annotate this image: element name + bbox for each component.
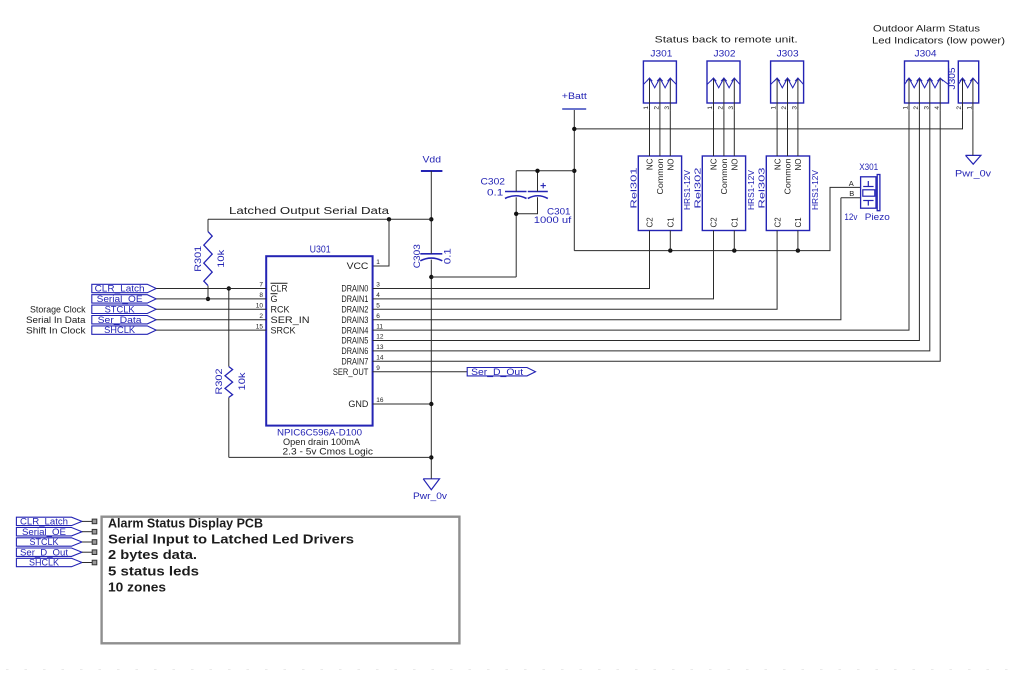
wire DRAIN3 bbox=[373, 198, 841, 320]
svg-text:Vdd: Vdd bbox=[423, 155, 442, 165]
svg-text:SHCLK: SHCLK bbox=[29, 558, 59, 568]
svg-text:3: 3 bbox=[792, 106, 799, 110]
ground Pwr_0v (below U301) bbox=[423, 479, 439, 490]
svg-text:Common: Common bbox=[784, 159, 793, 195]
svg-text:Ser_D_Out: Ser_D_Out bbox=[471, 367, 524, 377]
svg-text:7: 7 bbox=[259, 282, 263, 289]
svg-text:C1: C1 bbox=[731, 217, 740, 228]
svg-text:2: 2 bbox=[913, 106, 920, 110]
svg-text:Open drain 100mA: Open drain 100mA bbox=[283, 437, 360, 447]
svg-text:NC: NC bbox=[773, 158, 782, 170]
svg-text:C1: C1 bbox=[794, 217, 803, 228]
junction dot ground jog bbox=[429, 275, 433, 279]
svg-text:1: 1 bbox=[707, 106, 714, 110]
svg-text:HRS1-12V: HRS1-12V bbox=[682, 170, 692, 210]
svg-text:Rel301: Rel301 bbox=[628, 167, 638, 208]
junction dot C301 top bbox=[535, 169, 539, 173]
wire C303 bottom to ground rail bbox=[430, 260, 432, 479]
svg-text:C303: C303 bbox=[412, 244, 422, 268]
svg-text:5: 5 bbox=[376, 303, 380, 310]
svg-text:Serial In Data: Serial In Data bbox=[26, 315, 86, 325]
junction dot bottom rail bbox=[429, 455, 433, 459]
net flag Serial_OE (sheet port) bbox=[16, 528, 82, 536]
wire cap top rail bbox=[516, 170, 574, 172]
svg-text:2: 2 bbox=[718, 106, 725, 110]
wire ground jog to C302 bbox=[431, 276, 516, 278]
svg-text:DRAIN3: DRAIN3 bbox=[341, 315, 368, 325]
svg-text:J302: J302 bbox=[714, 49, 736, 60]
net flag STCLK bbox=[92, 305, 156, 313]
svg-text:RCK: RCK bbox=[271, 305, 290, 315]
svg-text:2 bytes data.: 2 bytes data. bbox=[108, 547, 197, 562]
svg-text:DRAIN1: DRAIN1 bbox=[341, 294, 368, 304]
svg-text:NO: NO bbox=[794, 159, 803, 171]
relay Rel301 bbox=[638, 156, 681, 231]
note box bbox=[102, 517, 460, 644]
svg-text:1: 1 bbox=[967, 106, 974, 110]
svg-text:J304: J304 bbox=[915, 49, 937, 60]
wire STCLK port bbox=[82, 541, 92, 543]
wire VCC drop to pin1 bbox=[373, 219, 389, 266]
connector J304 bbox=[905, 61, 949, 103]
wire SHCLK to U301 bbox=[156, 329, 266, 331]
wire DRAIN7 bbox=[373, 111, 941, 361]
wire Serial_OE to U301 bbox=[156, 298, 266, 300]
svg-text:C2: C2 bbox=[646, 217, 655, 228]
svg-text:DRAIN2: DRAIN2 bbox=[341, 305, 368, 315]
svg-text:1000 uf: 1000 uf bbox=[534, 215, 572, 225]
pad Ser_D_Out port bbox=[92, 550, 97, 555]
svg-text:Rel303: Rel303 bbox=[756, 167, 766, 208]
connector J301 bbox=[643, 61, 676, 103]
wire VCC top rail bbox=[208, 218, 431, 220]
svg-text:10: 10 bbox=[256, 303, 264, 310]
svg-text:GND: GND bbox=[348, 399, 369, 409]
svg-text:CLR_Latch: CLR_Latch bbox=[95, 284, 145, 294]
wire Rel301 C1 stub bbox=[669, 231, 671, 251]
svg-text:14: 14 bbox=[376, 355, 384, 362]
svg-text:2: 2 bbox=[259, 313, 263, 320]
wire C1 rail (relay coil common) bbox=[574, 187, 860, 250]
svg-text:NO: NO bbox=[667, 159, 676, 171]
svg-text:Led Indicators (low power): Led Indicators (low power) bbox=[872, 36, 1005, 47]
svg-text:6: 6 bbox=[376, 313, 380, 320]
svg-text:16: 16 bbox=[376, 397, 384, 404]
svg-text:C2: C2 bbox=[710, 217, 719, 228]
faint bottom dashes bbox=[6, 669, 1018, 671]
wire +Batt vertical (bar to C1 rail corner) bbox=[573, 110, 575, 251]
svg-text:SER_IN: SER_IN bbox=[271, 315, 310, 325]
svg-text:10k: 10k bbox=[216, 249, 226, 268]
svg-text:10k: 10k bbox=[237, 372, 247, 391]
svg-text:15: 15 bbox=[256, 323, 264, 330]
svg-text:8: 8 bbox=[259, 292, 263, 299]
net flag SHCLK bbox=[92, 326, 156, 334]
svg-text:2: 2 bbox=[956, 106, 963, 110]
net flag Ser_D_Out (sheet port) bbox=[16, 548, 82, 556]
net flag Serial_OE bbox=[92, 295, 156, 303]
wire Ser_Data to U301 bbox=[156, 319, 266, 321]
wire DRAIN0 bbox=[373, 231, 650, 289]
svg-text:X301: X301 bbox=[859, 162, 878, 173]
wire Serial_OE port bbox=[82, 531, 92, 533]
junction dot rail/batt bbox=[572, 127, 576, 131]
wire CLR_Latch to U301 bbox=[156, 288, 266, 290]
svg-text:Common: Common bbox=[720, 159, 729, 195]
svg-text:3: 3 bbox=[376, 282, 380, 289]
svg-text:Serial_OE: Serial_OE bbox=[97, 294, 143, 304]
svg-text:C302: C302 bbox=[481, 177, 506, 187]
svg-text:Status back to remote unit.: Status back to remote unit. bbox=[655, 35, 798, 46]
resistor R302 bbox=[228, 289, 230, 367]
svg-text:5 status leds: 5 status leds bbox=[108, 563, 199, 578]
resistor R301 bbox=[207, 219, 209, 231]
svg-text:12v: 12v bbox=[844, 212, 857, 222]
pad Serial_OE port bbox=[92, 529, 97, 534]
junction dot Rel301 C1 bbox=[668, 248, 672, 252]
svg-text:1: 1 bbox=[376, 259, 380, 266]
net flag Ser_Data bbox=[92, 316, 156, 324]
wire Ser_D_Out port bbox=[82, 551, 92, 553]
junction dot Rel303 C1 bbox=[796, 248, 800, 252]
svg-text:Serial Input to Latched Led Dr: Serial Input to Latched Led Drivers bbox=[108, 531, 354, 546]
wire Vdd to C303 bbox=[430, 171, 432, 254]
svg-text:SHCLK: SHCLK bbox=[104, 325, 135, 335]
relay Rel302 bbox=[702, 156, 745, 231]
junction dot Rel302 C1 bbox=[732, 248, 736, 252]
svg-text:A: A bbox=[849, 179, 854, 188]
svg-text:Rel302: Rel302 bbox=[692, 167, 702, 208]
svg-text:13: 13 bbox=[376, 344, 384, 351]
svg-text:J301: J301 bbox=[650, 49, 672, 60]
svg-text:Pwr_0v: Pwr_0v bbox=[955, 169, 992, 179]
svg-text:+Batt: +Batt bbox=[562, 91, 588, 101]
relay Rel303 bbox=[766, 156, 809, 231]
svg-text:NO: NO bbox=[731, 159, 740, 171]
wire CLR_Latch port bbox=[82, 520, 92, 522]
junction dot C301/C302 bottom bbox=[514, 212, 518, 216]
svg-text:0.1: 0.1 bbox=[443, 248, 453, 264]
wire DRAIN2 bbox=[373, 231, 777, 310]
svg-text:11: 11 bbox=[376, 323, 383, 330]
svg-text:C1: C1 bbox=[667, 217, 676, 228]
svg-text:CLR: CLR bbox=[271, 284, 288, 294]
net flag STCLK (sheet port) bbox=[16, 538, 82, 546]
wire SER_OUT bbox=[373, 371, 468, 373]
svg-text:J305: J305 bbox=[947, 68, 958, 90]
svg-text:1: 1 bbox=[903, 106, 910, 110]
svg-text:STCLK: STCLK bbox=[105, 304, 135, 314]
svg-text:Outdoor Alarm Status: Outdoor Alarm Status bbox=[873, 24, 980, 35]
svg-text:Ser_D_Out: Ser_D_Out bbox=[20, 547, 69, 557]
wire +Batt rail to J305 pin2 bbox=[574, 111, 962, 129]
svg-text:12: 12 bbox=[376, 334, 384, 341]
net flag CLR_Latch (sheet port) bbox=[16, 517, 82, 525]
junction dot R301 bottom bbox=[206, 297, 210, 301]
wire J305 pin1 to ground bbox=[972, 111, 974, 155]
svg-text:2: 2 bbox=[781, 106, 788, 110]
pad STCLK port bbox=[92, 540, 97, 545]
svg-text:2.3 - 5v Cmos Logic: 2.3 - 5v Cmos Logic bbox=[283, 447, 374, 457]
pad CLR_Latch port bbox=[92, 519, 97, 524]
svg-text:9: 9 bbox=[376, 365, 380, 372]
ground Pwr_0v (J305) bbox=[966, 155, 981, 164]
svg-text:VCC: VCC bbox=[347, 261, 369, 271]
wire Rel302 C1 stub bbox=[733, 231, 735, 251]
wire DRAIN5 bbox=[373, 111, 920, 341]
net flag SHCLK (sheet port) bbox=[16, 558, 82, 566]
svg-text:DRAIN6: DRAIN6 bbox=[341, 346, 368, 356]
svg-text:4: 4 bbox=[376, 292, 380, 299]
svg-text:G: G bbox=[271, 294, 278, 304]
net flag CLR_Latch bbox=[92, 284, 156, 292]
wire GND bbox=[373, 403, 432, 405]
svg-text:Ser_Data: Ser_Data bbox=[98, 315, 142, 325]
pad SHCLK port bbox=[92, 560, 97, 565]
svg-text:1: 1 bbox=[643, 106, 650, 110]
wire piezo B horizontal bbox=[841, 197, 861, 199]
net flag Ser_D_Out bbox=[467, 368, 535, 376]
svg-text:Serial_OE: Serial_OE bbox=[22, 527, 66, 537]
junction dot R302 top bbox=[227, 286, 231, 290]
svg-text:NC: NC bbox=[646, 158, 655, 170]
svg-text:3: 3 bbox=[923, 106, 930, 110]
connector J305 bbox=[958, 61, 978, 103]
svg-text:DRAIN7: DRAIN7 bbox=[341, 357, 368, 367]
svg-text:SRCK: SRCK bbox=[271, 325, 296, 335]
svg-text:Alarm Status Display PCB: Alarm Status Display PCB bbox=[108, 516, 263, 531]
svg-text:R302: R302 bbox=[214, 369, 224, 395]
svg-text:DRAIN0: DRAIN0 bbox=[341, 284, 368, 294]
svg-text:C2: C2 bbox=[773, 217, 782, 228]
svg-text:Pwr_0v: Pwr_0v bbox=[413, 491, 448, 501]
svg-text:3: 3 bbox=[664, 106, 671, 110]
wire DRAIN6 bbox=[373, 111, 930, 351]
wire bottom ground rail bbox=[229, 456, 431, 458]
svg-text:1: 1 bbox=[771, 106, 778, 110]
wire STCLK to U301 bbox=[156, 308, 266, 310]
svg-text:Latched Output Serial Data: Latched Output Serial Data bbox=[229, 206, 390, 217]
wire DRAIN4 bbox=[373, 111, 909, 330]
svg-text:NC: NC bbox=[710, 158, 719, 170]
svg-text:Piezo: Piezo bbox=[865, 212, 890, 222]
op-amp U301 box bbox=[266, 256, 372, 425]
svg-text:10 zones: 10 zones bbox=[108, 580, 166, 595]
svg-text:3: 3 bbox=[728, 106, 735, 110]
junction dot VCC drop bbox=[387, 217, 391, 221]
svg-text:SER_OUT: SER_OUT bbox=[333, 367, 369, 377]
svg-text:Common: Common bbox=[656, 159, 665, 195]
connector J303 bbox=[771, 61, 804, 103]
svg-text:2: 2 bbox=[654, 106, 661, 110]
svg-text:R301: R301 bbox=[193, 246, 203, 272]
svg-text:HRS1-12V: HRS1-12V bbox=[810, 170, 820, 210]
svg-text:0.1: 0.1 bbox=[487, 188, 503, 198]
junction dot batt/cap-top bbox=[572, 169, 576, 173]
connector J302 bbox=[707, 61, 740, 103]
svg-text:CLR_Latch: CLR_Latch bbox=[20, 517, 68, 527]
svg-text:DRAIN4: DRAIN4 bbox=[341, 325, 368, 335]
svg-text:HRS1-12V: HRS1-12V bbox=[746, 170, 756, 210]
svg-text:B: B bbox=[849, 189, 854, 198]
svg-text:Storage Clock: Storage Clock bbox=[30, 305, 86, 315]
svg-text:U301: U301 bbox=[310, 245, 331, 256]
svg-text:4: 4 bbox=[934, 106, 941, 110]
wire DRAIN1 bbox=[373, 231, 714, 299]
junction dot GND pin bbox=[429, 402, 433, 406]
wire SHCLK port bbox=[82, 562, 92, 564]
svg-text:J303: J303 bbox=[777, 49, 799, 60]
svg-text:DRAIN5: DRAIN5 bbox=[341, 336, 368, 346]
wire Rel303 C1 stub bbox=[797, 231, 799, 251]
junction dot Vdd/R301 wire bbox=[429, 217, 433, 221]
svg-text:Shift In Clock: Shift In Clock bbox=[26, 325, 86, 335]
svg-text:STCLK: STCLK bbox=[30, 537, 59, 547]
